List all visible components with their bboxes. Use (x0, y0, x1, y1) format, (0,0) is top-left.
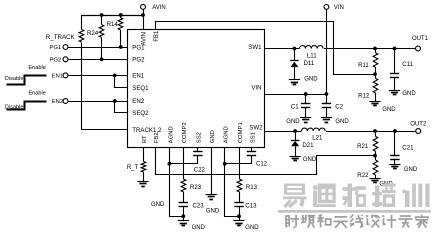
svg-text:SW2: SW2 (249, 125, 263, 132)
node C23 ground junction (181, 214, 185, 218)
node EN2-SEQ2 tap (113, 99, 117, 103)
terminal OUT1 (416, 46, 421, 51)
diode D21 (295, 131, 297, 140)
node R14 bottom on PG1 (119, 45, 123, 49)
node C13 ground junction (237, 214, 241, 218)
svg-text:FB1: FB1 (154, 30, 160, 42)
resistor R23 (183, 148, 185, 180)
wire GND pin (211, 148, 213, 195)
capacitor C21 (394, 131, 396, 155)
capacitor C1 (304, 92, 308, 96)
node OUT2-R21 (373, 129, 377, 133)
svg-text:R24: R24 (87, 30, 99, 37)
svg-text:COMP1: COMP1 (238, 122, 244, 143)
wire AGND1 to ground (225, 148, 240, 217)
svg-text:R23: R23 (190, 184, 202, 191)
ground C13 (233, 220, 244, 222)
svg-text:GND: GND (404, 167, 418, 173)
node SW2-D21 (293, 129, 297, 133)
svg-text:D21: D21 (302, 142, 314, 149)
resistor R13 (239, 148, 241, 180)
svg-text:SW1: SW1 (248, 44, 262, 51)
svg-text:GND: GND (192, 225, 206, 231)
svg-text:Disable: Disable (5, 76, 24, 82)
capacitor C22 (197, 148, 199, 152)
svg-text:COMP2: COMP2 (182, 122, 188, 143)
capacitor C2 (325, 92, 329, 96)
wire VIN pin (265, 94, 327, 96)
watermark slogan text (285, 215, 299, 228)
wire PG2 (68, 59, 128, 61)
svg-text:R_T: R_T (127, 164, 139, 171)
inductor L21 (302, 128, 326, 131)
svg-text:SEQ2: SEQ2 (132, 110, 149, 117)
svg-text:L11: L11 (307, 52, 317, 59)
svg-text:C12: C12 (256, 161, 268, 168)
IC U1 regulator body (128, 30, 265, 148)
wire PG1 (68, 47, 128, 49)
svg-text:OUT1: OUT1 (412, 36, 429, 42)
wire AVIN column to IC pin (143, 9, 145, 29)
ground GND pin (206, 194, 217, 196)
svg-text:GND: GND (382, 107, 396, 113)
svg-text:D11: D11 (304, 60, 315, 67)
svg-text:AGND: AGND (224, 126, 230, 143)
node AVIN junction on bus (141, 13, 145, 17)
resistor R_T (143, 148, 145, 162)
svg-text:GND: GND (210, 130, 216, 143)
watermark logo text big (283, 184, 307, 208)
ground R22 (369, 178, 380, 180)
svg-text:GND: GND (335, 119, 349, 125)
wire SW1 row (265, 48, 300, 50)
wire SW2 row (265, 131, 302, 133)
waveform enable EN2 (7, 102, 47, 110)
svg-text:R11: R11 (358, 62, 369, 69)
terminal PG2 (63, 57, 68, 62)
svg-text:C2: C2 (335, 103, 343, 110)
terminal EN1 (63, 73, 68, 78)
svg-text:FB2: FB2 (154, 132, 160, 143)
svg-text:C1: C1 (291, 103, 299, 110)
diode D11 (294, 49, 296, 61)
wire FB1 route to divider (156, 22, 376, 75)
svg-text:PG2: PG2 (132, 57, 145, 64)
inductor L11 (300, 46, 324, 49)
svg-text:C11: C11 (402, 61, 413, 68)
ground C23 (178, 220, 189, 222)
ground C11 (389, 90, 400, 92)
node R24 top (100, 13, 104, 17)
svg-text:EN2: EN2 (52, 99, 63, 105)
svg-text:GND: GND (304, 77, 318, 83)
resistor R24 (101, 15, 103, 25)
node AGND2-C22 return (168, 162, 172, 166)
node OUT1-R11 (373, 47, 377, 51)
ground R_T (137, 181, 148, 183)
resistor R14 (120, 15, 122, 18)
svg-text:RT: RT (142, 135, 148, 143)
ground C1 (300, 117, 311, 119)
svg-text:C13: C13 (245, 203, 257, 210)
svg-text:PG1: PG1 (50, 45, 62, 51)
svg-text:R21: R21 (357, 143, 369, 150)
svg-text:EN2: EN2 (132, 98, 144, 105)
svg-text:EN1: EN1 (52, 73, 63, 79)
svg-text:R_TRACK: R_TRACK (46, 34, 76, 41)
svg-text:EN1: EN1 (132, 73, 144, 80)
wire EN2 (68, 101, 128, 103)
wire EN1 (68, 75, 128, 77)
wire AVIN top bus (82, 15, 144, 17)
wire SEQ1 (115, 76, 128, 88)
resistor R_TRACK (81, 15, 83, 30)
svg-text:AVIN: AVIN (152, 5, 166, 11)
svg-text:R22: R22 (357, 172, 369, 179)
svg-text:SEQ1: SEQ1 (132, 85, 149, 92)
wire SEQ2 (115, 102, 128, 113)
svg-text:VIN: VIN (334, 5, 344, 11)
svg-text:Enable: Enable (28, 90, 45, 96)
svg-text:PG2: PG2 (50, 58, 62, 64)
node R24 bottom on PG2 (100, 57, 104, 61)
node SW1-D11 (293, 47, 297, 51)
waveform enable EN1 (7, 76, 47, 85)
wire VIN column (326, 9, 328, 94)
node R14 top (119, 13, 123, 17)
capacitor C13 (239, 192, 241, 202)
wire AGND2 to ground (170, 148, 184, 217)
ground D11 (289, 79, 300, 81)
svg-text:GND: GND (286, 119, 300, 125)
terminal EN2 (63, 99, 68, 104)
node OUT1-C11 (393, 47, 397, 51)
svg-text:VIN: VIN (251, 84, 261, 91)
svg-text:GND: GND (402, 91, 416, 97)
capacitor C11 (394, 49, 396, 74)
wire OUT2 row (326, 131, 416, 133)
svg-text:AGND: AGND (168, 126, 174, 143)
svg-text:Disable: Disable (5, 105, 24, 111)
terminal PG1 (63, 45, 68, 50)
svg-text:SS2: SS2 (197, 132, 203, 143)
svg-text:C23: C23 (193, 203, 205, 210)
node OUT2-C21 (393, 129, 397, 133)
svg-text:GND: GND (303, 157, 317, 163)
svg-text:R13: R13 (246, 184, 258, 191)
svg-text:R12: R12 (358, 92, 370, 99)
watermark underline (278, 210, 431, 213)
ground C21 (389, 164, 400, 166)
svg-text:C22: C22 (194, 168, 206, 174)
resistor R12 (375, 74, 377, 78)
node R11-R12-FB1 (373, 72, 377, 76)
resistor R21 (375, 131, 377, 136)
ground R12 (369, 101, 380, 103)
terminal AVIN (141, 4, 146, 9)
ground D21 (290, 156, 301, 158)
wire R_TRACK column to TRACK pin (82, 43, 128, 130)
node EN1-SEQ1 tap (113, 74, 117, 78)
terminal VIN (324, 4, 329, 9)
svg-text:GND: GND (245, 225, 259, 231)
capacitor C12 (251, 148, 253, 152)
terminal OUT2 (416, 129, 421, 134)
resistor R11 (375, 49, 377, 53)
svg-text:GND: GND (151, 202, 165, 208)
svg-text:AVIN: AVIN (142, 32, 148, 46)
capacitor C23 (183, 192, 185, 202)
node AGND1-C12 return (223, 162, 227, 166)
node R21-R22-FB2 (373, 154, 377, 158)
svg-text:Enable: Enable (28, 65, 45, 71)
svg-text:R14: R14 (107, 21, 119, 28)
svg-text:GND: GND (206, 208, 220, 214)
svg-text:C21: C21 (402, 145, 414, 152)
resistor R22 (375, 156, 377, 161)
wire OUT1 row (324, 48, 415, 50)
svg-text:SS1: SS1 (250, 132, 256, 143)
ground C2 (321, 117, 332, 119)
svg-text:L21: L21 (312, 134, 323, 141)
svg-text:OUT2: OUT2 (410, 122, 427, 128)
wire FB2 route to divider (156, 148, 376, 175)
